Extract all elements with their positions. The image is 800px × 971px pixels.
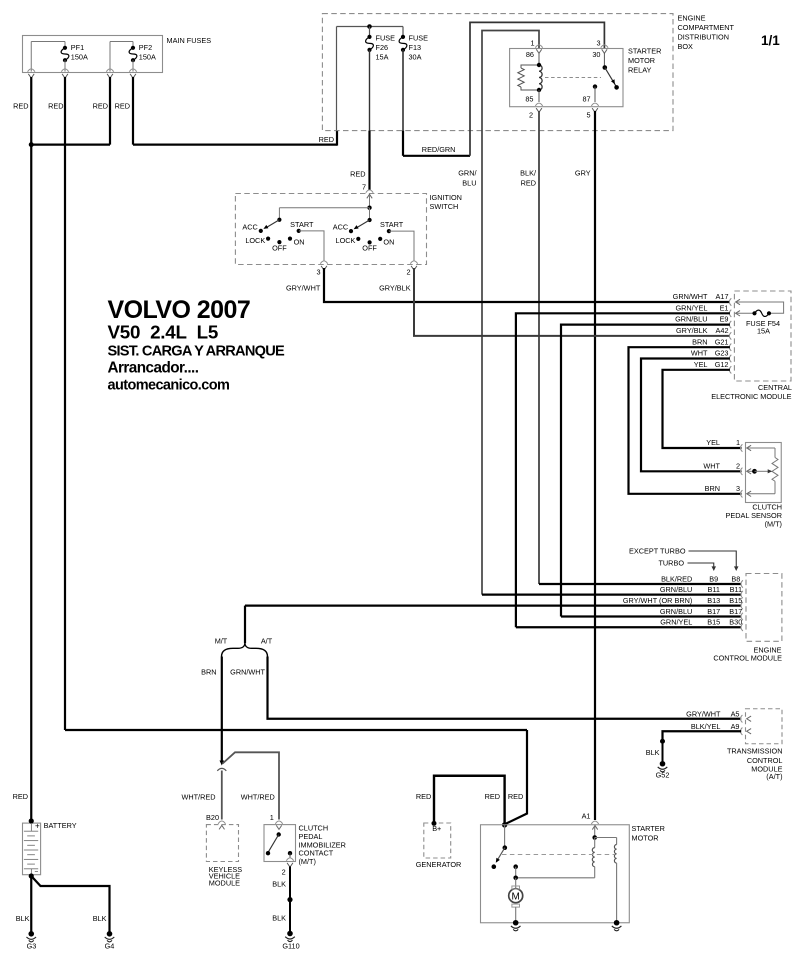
svg-text:B30: B30 [729, 618, 742, 627]
svg-text:7: 7 [362, 183, 366, 192]
svg-text:B15: B15 [707, 618, 720, 627]
svg-text:GRY/WHT: GRY/WHT [686, 710, 721, 719]
svg-text:1: 1 [270, 813, 274, 822]
svg-text:30: 30 [592, 50, 600, 59]
svg-text:M: M [512, 891, 520, 902]
svg-text:G110: G110 [282, 942, 299, 951]
svg-text:RED: RED [93, 102, 108, 111]
svg-text:FUSE: FUSE [409, 34, 429, 43]
svg-text:START: START [380, 220, 404, 229]
svg-text:3: 3 [316, 268, 320, 277]
svg-text:2: 2 [406, 268, 410, 277]
svg-text:PF2: PF2 [139, 43, 152, 52]
svg-text:+: + [35, 822, 40, 831]
svg-text:B20: B20 [206, 813, 219, 822]
svg-text:B11: B11 [707, 585, 719, 594]
svg-text:30A: 30A [409, 53, 422, 62]
svg-text:automecanico.com: automecanico.com [108, 378, 230, 394]
svg-text:RED: RED [13, 792, 28, 801]
svg-text:LOCK: LOCK [245, 236, 265, 245]
svg-text:GRY/WHT (OR BRN): GRY/WHT (OR BRN) [623, 596, 692, 605]
svg-text:SWITCH: SWITCH [430, 202, 459, 211]
svg-text:RED: RED [48, 102, 63, 111]
svg-text:1: 1 [736, 438, 740, 447]
svg-text:GRN/WHT: GRN/WHT [673, 292, 708, 301]
svg-text:OFF: OFF [362, 244, 377, 253]
svg-text:B13: B13 [707, 596, 720, 605]
svg-text:5: 5 [587, 111, 591, 120]
svg-text:WHT/RED: WHT/RED [181, 792, 215, 801]
svg-text:B9: B9 [709, 574, 718, 583]
svg-text:LOCK: LOCK [336, 236, 356, 245]
svg-text:15A: 15A [376, 53, 389, 62]
svg-text:86: 86 [526, 50, 534, 59]
svg-text:BLK/RED: BLK/RED [661, 574, 692, 583]
svg-text:G23: G23 [715, 349, 729, 358]
svg-text:GRN/BLU: GRN/BLU [660, 585, 692, 594]
svg-text:RED: RED [13, 102, 28, 111]
svg-text:1: 1 [530, 39, 534, 48]
svg-text:COMPARTMENT: COMPARTMENT [678, 23, 735, 32]
svg-text:A42: A42 [716, 326, 729, 335]
svg-text:B17: B17 [707, 607, 720, 616]
svg-text:GRY/WHT: GRY/WHT [286, 283, 321, 292]
svg-text:BRN: BRN [201, 668, 216, 677]
svg-text:BLK/YEL: BLK/YEL [691, 722, 721, 731]
svg-text:TURBO: TURBO [658, 559, 684, 568]
svg-text:A17: A17 [716, 292, 729, 301]
svg-text:BATTERY: BATTERY [44, 821, 77, 830]
svg-text:A5: A5 [731, 710, 740, 719]
svg-text:RELAY: RELAY [628, 66, 652, 75]
svg-text:F26: F26 [376, 43, 389, 52]
svg-text:STARTER: STARTER [628, 47, 661, 56]
svg-text:WHT/RED: WHT/RED [241, 792, 275, 801]
svg-text:BRN: BRN [705, 484, 720, 493]
svg-text:BLK: BLK [272, 914, 286, 923]
svg-text:SIST. CARGA Y ARRANQUE: SIST. CARGA Y ARRANQUE [108, 344, 286, 360]
svg-text:YEL: YEL [694, 360, 708, 369]
svg-text:87: 87 [582, 95, 590, 104]
svg-text:BRN: BRN [692, 337, 707, 346]
svg-text:2: 2 [282, 868, 286, 877]
svg-text:150A: 150A [139, 53, 156, 62]
svg-text:GRY/BLK: GRY/BLK [379, 283, 411, 292]
svg-text:85: 85 [525, 95, 533, 104]
svg-text:VOLVO 2007: VOLVO 2007 [108, 296, 251, 324]
svg-text:RED: RED [115, 102, 130, 111]
svg-text:A1: A1 [582, 812, 591, 821]
svg-text:BLU: BLU [462, 179, 476, 188]
svg-text:(A/T): (A/T) [766, 772, 782, 781]
svg-text:150A: 150A [71, 53, 88, 62]
svg-text:ACC: ACC [333, 223, 348, 232]
svg-text:BLK: BLK [646, 748, 660, 757]
svg-text:B17: B17 [729, 607, 742, 616]
svg-text:2: 2 [529, 111, 533, 120]
svg-text:CONTROL MODULE: CONTROL MODULE [713, 654, 782, 663]
svg-text:(M/T): (M/T) [299, 857, 316, 866]
svg-text:EXCEPT TURBO: EXCEPT TURBO [629, 547, 686, 556]
svg-text:RED: RED [508, 792, 523, 801]
svg-text:G3: G3 [27, 942, 37, 951]
svg-text:G52: G52 [656, 771, 670, 780]
svg-text:E1: E1 [720, 303, 729, 312]
svg-text:GRY: GRY [575, 169, 591, 178]
svg-text:E9: E9 [720, 315, 729, 324]
svg-text:B15: B15 [729, 596, 742, 605]
svg-text:RED: RED [485, 792, 500, 801]
svg-text:GRN/YEL: GRN/YEL [675, 303, 707, 312]
svg-text:ENGINE: ENGINE [678, 14, 706, 23]
svg-text:MOTOR: MOTOR [628, 56, 655, 65]
svg-text:G12: G12 [715, 360, 729, 369]
svg-text:DISTRIBUTION: DISTRIBUTION [678, 33, 729, 42]
svg-text:RED: RED [416, 792, 431, 801]
svg-text:−: − [35, 868, 39, 875]
svg-text:ACC: ACC [242, 223, 257, 232]
svg-text:TRANSMISSION: TRANSMISSION [727, 747, 783, 756]
svg-text:2: 2 [736, 462, 740, 471]
svg-text:GENERATOR: GENERATOR [416, 860, 462, 869]
svg-text:G21: G21 [715, 337, 729, 346]
svg-text:GRN/YEL: GRN/YEL [660, 618, 692, 627]
svg-text:RED: RED [350, 170, 365, 179]
svg-text:RED/GRN: RED/GRN [422, 145, 456, 154]
svg-text:WHT: WHT [691, 349, 708, 358]
svg-text:3: 3 [736, 484, 740, 493]
svg-text:M/T: M/T [215, 637, 228, 646]
svg-text:CENTRAL: CENTRAL [758, 383, 792, 392]
svg-text:GRY/BLK: GRY/BLK [676, 326, 708, 335]
svg-text:ELECTRONIC MODULE: ELECTRONIC MODULE [711, 392, 791, 401]
svg-text:MOTOR: MOTOR [632, 833, 659, 842]
svg-text:BLK: BLK [16, 914, 30, 923]
svg-text:GRN/BLU: GRN/BLU [675, 315, 707, 324]
svg-text:OFF: OFF [272, 244, 287, 253]
svg-text:MAIN FUSES: MAIN FUSES [167, 36, 212, 45]
svg-text:MODULE: MODULE [209, 878, 240, 887]
svg-text:GRN/: GRN/ [458, 169, 477, 178]
svg-text:B8: B8 [731, 574, 740, 583]
svg-text:G4: G4 [105, 942, 115, 951]
svg-text:BOX: BOX [678, 42, 694, 51]
svg-text:IGNITION: IGNITION [430, 193, 462, 202]
svg-text:V50 2.4L L5: V50 2.4L L5 [108, 322, 219, 343]
svg-text:RED: RED [521, 179, 536, 188]
svg-text:PF1: PF1 [71, 43, 84, 52]
svg-text:ON: ON [383, 238, 394, 247]
svg-text:GRN/WHT: GRN/WHT [230, 668, 265, 677]
svg-text:BLK/: BLK/ [520, 169, 537, 178]
svg-text:B+: B+ [432, 824, 441, 833]
svg-text:1/1: 1/1 [761, 33, 780, 48]
svg-text:Arrancador....: Arrancador.... [108, 360, 199, 377]
svg-text:A9: A9 [731, 722, 740, 731]
svg-text:B11: B11 [730, 585, 742, 594]
svg-text:BLK: BLK [93, 914, 107, 923]
svg-text:GRN/BLU: GRN/BLU [660, 607, 692, 616]
svg-text:START: START [290, 220, 314, 229]
svg-text:A/T: A/T [261, 637, 273, 646]
svg-text:ON: ON [294, 238, 305, 247]
svg-text:3: 3 [596, 39, 600, 48]
svg-text:YEL: YEL [706, 438, 720, 447]
svg-text:(M/T): (M/T) [765, 520, 782, 529]
svg-text:WHT: WHT [703, 462, 720, 471]
svg-text:F13: F13 [409, 43, 422, 52]
svg-text:15A: 15A [757, 327, 770, 336]
svg-text:BLK: BLK [272, 880, 286, 889]
svg-text:FUSE: FUSE [376, 34, 396, 43]
svg-text:STARTER: STARTER [632, 824, 665, 833]
svg-text:RED: RED [319, 135, 334, 144]
